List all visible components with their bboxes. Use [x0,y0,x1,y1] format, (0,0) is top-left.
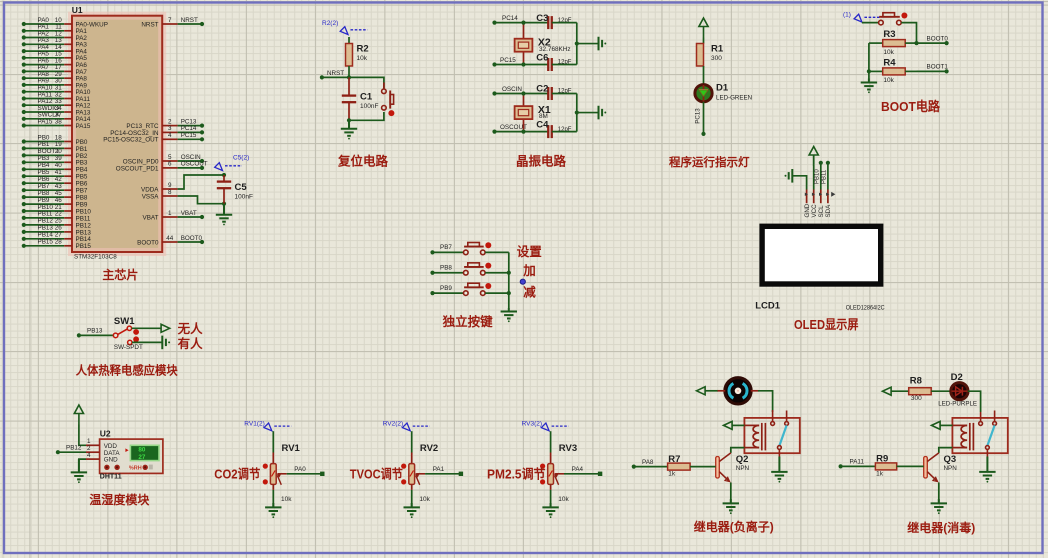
ground keys [501,308,517,319]
push button reset [383,83,385,89]
svg-text:PB12: PB12 [76,222,92,229]
wire boot button to BOOT0 node [901,23,916,43]
svg-text:BOOT0: BOOT0 [927,35,949,42]
junction crystal top [521,91,525,95]
svg-text:PB13: PB13 [87,328,103,335]
svg-text:PB14: PB14 [76,236,92,243]
U1 right pin 3 PC14-OSC32_IN [110,125,204,137]
power arrow OLED VCC [809,147,818,167]
relay coil [744,425,759,447]
U1 left pin 18 PB0 net PB0 [22,134,88,146]
wire power to VDD pin [79,425,86,446]
svg-text:PB5: PB5 [76,174,88,181]
svg-text:Q3: Q3 [944,454,957,465]
voltage probe R2(2) [322,20,368,35]
svg-text:CO2调节: CO2调节 [214,466,260,481]
svg-text:RV1: RV1 [282,443,301,454]
svg-text:32.768KHz: 32.768KHz [539,46,571,53]
U1 left pin 31 PA10 net PA10 [22,85,91,97]
U2 pin 2 DATA net PB12 [56,445,100,455]
crystal X2 32.768KHz [515,23,571,65]
svg-text:PB1: PB1 [76,146,88,153]
svg-text:LCD1: LCD1 [755,300,781,311]
svg-text:人体热释电感应模块: 人体热释电感应模块 [76,363,179,378]
svg-text:OLED显示屏: OLED显示屏 [794,317,859,332]
svg-text:BOOT1: BOOT1 [927,64,949,71]
wire power to R1 [703,38,705,44]
U1 left pin 25 PB12 net PB12 [22,218,92,230]
svg-text:38: 38 [55,118,63,125]
wire probe to RV3 top [550,431,552,452]
net PA1 wire [425,466,463,476]
wire probe to RV1 top [272,431,274,452]
svg-text:PA0: PA0 [294,466,306,473]
svg-text:1k: 1k [668,471,676,478]
relay core [762,423,766,451]
push button PB9 [464,283,486,295]
svg-text:VSSA: VSSA [142,193,160,200]
svg-text:PA8: PA8 [642,459,654,466]
U1 right pin 2 PC13_RTC [126,118,204,130]
svg-text:PC15: PC15 [500,57,516,64]
U1 left pin 34 PA13 net SWDIO [22,105,91,117]
U1 left pin 16 PA6 net PA6 [22,57,88,69]
svg-text:VDDA: VDDA [141,186,159,193]
wire PC15 line [495,64,549,66]
U1 right pin 8 VSSA [142,189,178,201]
svg-text:U2: U2 [100,428,111,438]
junction bus PB9 [507,291,511,295]
wire NRST node to button [349,77,384,89]
U1 left pin 12 PA2 net PA2 [22,30,88,42]
U1 left pin 27 PB14 net PB14 [22,232,92,244]
wire Q2 emitter to ground [730,483,732,504]
wire R3 left to R4 left [868,43,870,78]
ground reset circuit [341,120,357,136]
power arrow relay2 coil top [932,421,941,429]
svg-text:PB12: PB12 [66,445,82,452]
svg-text:RV1(2): RV1(2) [244,421,264,428]
wire GND pin to ground [793,176,807,190]
wire SCL [815,161,823,190]
resistor R3 10k [869,29,917,56]
switch SW1 SW-SPDT [113,316,143,351]
svg-text:OSCIN: OSCIN [502,86,522,93]
net BOOT1 wire [917,64,949,74]
U1 left pin 32 PA11 net PA11 [22,91,91,103]
svg-text:C6: C6 [536,53,548,64]
net BOOT0 wire [917,35,949,45]
svg-text:DHT11: DHT11 [100,474,122,481]
svg-text:100nF: 100nF [235,194,253,201]
svg-text:复位电路: 复位电路 [337,154,389,169]
svg-text:LED-GREEN: LED-GREEN [716,94,752,101]
svg-text:R4: R4 [883,58,896,69]
svg-text:PB6: PB6 [76,181,88,188]
svg-text:C3: C3 [536,13,548,24]
U1 right pin 7 NRST [141,17,204,29]
push button PB8 [464,263,486,275]
node PC13 end [701,132,705,136]
svg-text:SW-SPDT: SW-SPDT [114,344,143,351]
wire PC14 line [495,22,549,24]
wire R2 bottom to NRST node [348,66,350,77]
voltage probe RV3(2) [522,421,569,431]
U1 left pin 19 PB1 net PB1 [22,141,88,153]
svg-text:BOOT0: BOOT0 [181,235,203,242]
ground below C5 [216,204,232,222]
svg-text:PB7: PB7 [440,244,452,251]
LCD1 pin direction arrows [805,192,836,197]
svg-text:SDA: SDA [825,204,832,218]
relay common terminal [979,412,983,426]
capacitor C4 12pF [536,120,572,139]
svg-text:300: 300 [711,55,722,62]
svg-text:NRST: NRST [141,21,158,28]
key row net PB7 [430,244,463,254]
voltage probe RV2(2) [383,421,430,431]
svg-text:PC13: PC13 [695,108,702,124]
resistor R2 10k [346,37,369,66]
svg-text:PB15: PB15 [76,243,92,250]
relay NC terminal stub [993,411,997,426]
svg-text:27: 27 [55,232,63,239]
svg-text:NPN: NPN [736,465,750,472]
svg-text:PB11: PB11 [822,169,828,184]
resistor R8 300 [891,376,931,402]
junction bus PB8 [507,271,511,275]
svg-text:C5(2): C5(2) [233,155,249,162]
wire C4 to right bus [552,131,577,133]
wire coil bottom to Q2 collector [731,448,745,453]
svg-text:C2: C2 [536,84,548,95]
voltage probe C5(2) [215,155,250,171]
svg-text:10k: 10k [419,496,430,503]
U1 right pin 44 BOOT0 [137,235,204,247]
U1 left pin 41 PB5 net PB5 [22,169,88,181]
svg-text:OLED12864I2C: OLED12864I2C [846,305,886,311]
svg-text:R3: R3 [883,29,895,40]
svg-text:RV3: RV3 [559,443,577,454]
junction crystal bottom [521,130,525,134]
svg-text:PB12: PB12 [38,218,54,225]
resistor R9 1k net PA11 [839,454,924,478]
svg-text:PB1: PB1 [38,141,50,148]
U1 left pin 43 PB7 net PB7 [22,183,88,195]
capacitor C2 12pF [536,84,572,100]
U1 left pin 33 PA12 net PA12 [22,98,91,110]
svg-text:SW1: SW1 [114,316,135,327]
svg-text:44: 44 [166,235,174,242]
U1 right pin 1 VBAT [143,210,205,222]
svg-text:PA11: PA11 [850,459,865,466]
svg-text:10k: 10k [281,496,292,503]
wire button PB9 to bus [485,292,509,294]
svg-text:BOOT0: BOOT0 [137,239,159,246]
svg-text:U1: U1 [72,5,83,15]
wire bus to ground [577,112,599,114]
U1 left pin 29 PA8 net PA8 [22,71,88,83]
relay box [952,418,1007,453]
wire SW1 upper to power arrow [132,327,162,329]
capacitor C1 100nF [342,77,379,120]
power arrow R8 left [883,387,892,395]
svg-text:NRST: NRST [327,70,344,77]
U1 left pin 30 PA9 net PA9 [22,78,88,90]
wire bus to ground [577,43,599,45]
svg-text:VBAT: VBAT [143,214,159,221]
svg-text:主芯片: 主芯片 [102,267,138,282]
svg-text:1k: 1k [876,470,884,477]
push button PB7 [464,243,486,255]
wire probe to boot button [862,22,879,24]
svg-text:程序运行指示灯: 程序运行指示灯 [669,155,750,169]
svg-text:19: 19 [55,141,63,148]
right bus wire [576,23,578,65]
U1 left pin 46 PB9 net PB9 [22,197,88,209]
junction R4 left [867,69,871,73]
svg-text:300: 300 [911,395,922,402]
junction NRST node [347,75,351,79]
svg-text:10k: 10k [883,49,894,56]
wire button bottom to C1 bottom node [349,112,384,120]
U1 left pin 21 PB10 net PB10 [22,204,92,216]
U1 left pin 26 PB13 net PB13 [22,225,92,237]
potentiometer RV1 10k [263,443,301,503]
U1 left pin 38 PA15 net PA15 [22,118,91,130]
svg-text:PB5: PB5 [38,169,50,176]
svg-text:80: 80 [138,446,146,453]
svg-text:4: 4 [87,452,91,459]
svg-text:PB11: PB11 [38,211,53,218]
power arrow motor left [697,387,706,395]
U1 left pin 10 PA0-WKUP net PA0 [22,17,108,29]
LCD1 pin SCL [818,190,825,218]
svg-text:RV2: RV2 [420,443,438,454]
wire relay1 common entry [772,410,774,412]
net PA0 wire [287,466,325,476]
wire VCC pin to power [813,155,815,190]
ground OLED [789,169,793,183]
MCU U1 STM32F103C8 [72,5,163,260]
svg-text:独立按键: 独立按键 [442,314,494,329]
ground Q3 [931,499,947,510]
svg-text:NRST: NRST [181,17,198,24]
svg-text:42: 42 [55,176,63,183]
svg-text:加: 加 [522,263,536,278]
U1 right pin 6 OSCOUT_PD1 [116,161,208,173]
svg-text:C1: C1 [360,92,373,103]
svg-text:减: 减 [523,285,536,300]
wire probe to RV2 top [411,431,413,452]
wire R1 to D1 [703,66,705,85]
svg-text:RV3(2): RV3(2) [522,421,542,428]
svg-text:LED-PURPLE: LED-PURPLE [938,401,977,408]
U1 left pin 22 PB11 net PB11 [22,211,91,223]
svg-text:PB3: PB3 [76,160,88,167]
U1 left pin 20 PB2 net BOOT1 [22,148,88,160]
svg-text:SCL: SCL [818,205,825,218]
ground DHT11 [71,459,87,479]
voltage probe RV1(2) [244,421,291,431]
node C5 top [222,173,226,177]
wire OSCIN line [495,93,549,95]
svg-text:GND: GND [104,457,118,464]
resistor R7 1k net PA8 [632,454,716,478]
svg-text:(1): (1) [843,12,851,19]
svg-text:PB11: PB11 [76,215,91,222]
svg-text:Q2: Q2 [736,454,749,465]
U1 left pin 40 PB4 net PB4 [22,162,88,174]
resistor R1 300 [697,44,724,67]
svg-text:无人: 无人 [177,321,204,336]
U1 left pin 13 PA3 net PA3 [22,37,88,49]
wire D2 to relay2 common [968,391,981,412]
U1 left pin 28 PB15 net PB15 [22,239,92,251]
net PB13 wire [77,328,113,338]
ground crystal group [599,106,603,120]
voltage probe (1) [843,12,881,23]
svg-text:PB3: PB3 [38,155,50,162]
svg-text:1: 1 [168,210,172,217]
ground RV1 [265,503,281,514]
key row net PB9 [430,285,463,295]
svg-text:22: 22 [55,211,63,218]
svg-text:%RH: %RH [129,465,142,471]
ground crystal group [599,37,603,51]
svg-text:GND: GND [804,203,811,217]
svg-text:C4: C4 [536,120,549,131]
svg-text:9: 9 [168,182,172,189]
relay box [744,418,799,453]
LED D1 LED-GREEN [695,83,752,102]
svg-text:R1: R1 [711,44,724,55]
LCD1 OLED display body [755,224,885,312]
svg-text:PB15: PB15 [38,239,54,246]
wire RV1 bottom to ground [272,490,274,508]
svg-text:设置: 设置 [517,244,543,259]
wire power to motor [705,390,718,392]
svg-text:PM2.5调节: PM2.5调节 [487,466,546,481]
svg-text:RV2(2): RV2(2) [383,421,403,428]
wire relay2 coil bottom to Q3 [939,448,953,453]
push button BOOT [879,13,902,25]
svg-text:OSCOUT: OSCOUT [181,161,208,168]
svg-text:10k: 10k [883,77,894,84]
wire OSCOUT line [495,131,549,133]
right bus wire [576,94,578,132]
svg-text:OSCOUT_PD1: OSCOUT_PD1 [116,165,159,172]
svg-text:PB6: PB6 [38,176,50,183]
capacitor C3 12pF [536,13,572,29]
U1 left pin 17 PA7 net PA7 [22,64,88,76]
svg-text:PC15: PC15 [181,132,197,139]
U1 right pin 5 OSCIN_PD0 [123,154,204,166]
wire SDA [822,161,830,190]
resistor R4 10k [869,58,917,85]
relay NC terminal stub [785,411,789,426]
U1 right pin 9 VDDA [141,182,178,194]
svg-text:41: 41 [55,169,63,176]
svg-text:NPN: NPN [944,465,958,472]
svg-text:PA4: PA4 [572,466,584,473]
ground BOOT circuit [861,79,877,90]
relay core [970,423,974,451]
svg-text:温湿度模块: 温湿度模块 [89,492,150,507]
svg-text:R2(2): R2(2) [322,20,338,27]
wire button PB7 to bus [485,251,509,253]
relay switched terminal [778,446,782,457]
svg-text:有人: 有人 [178,336,204,351]
svg-text:R7: R7 [668,454,680,465]
junction BOOT0 [914,41,918,45]
svg-text:R2: R2 [357,44,369,55]
svg-text:28: 28 [55,239,63,246]
svg-text:PB9: PB9 [440,285,452,292]
U1 right pin 4 PC15-OSC32_OUT [103,132,204,144]
junction crystal bottom [521,62,525,66]
wire SW1 lower to ground [132,341,162,343]
LCD1 pin SDA [825,190,832,218]
svg-text:晶振电路: 晶振电路 [516,154,567,169]
keys bus wire [508,252,510,308]
svg-text:PB8: PB8 [38,190,50,197]
wire coil top [732,424,744,426]
node C5 bottom [222,202,226,206]
svg-text:继电器(消毒): 继电器(消毒) [907,520,975,535]
svg-text:8: 8 [168,189,172,196]
wire NRST node left [322,76,349,78]
relay lever [987,425,994,445]
key row net PB8 [430,265,463,275]
U1 left pin 11 PA1 net PA1 [22,24,88,36]
net PA4 wire [564,466,602,476]
ground RV2 [404,503,420,514]
LED D2 LED-PURPLE [938,372,977,408]
junction right bus [575,110,579,114]
svg-text:39: 39 [55,155,63,162]
svg-text:PB8: PB8 [440,265,452,272]
junction C1 bottom [347,118,351,122]
wire button PB8 to bus [485,272,509,274]
relay lever [779,425,786,445]
svg-text:VCC: VCC [811,204,818,218]
junction right bus [575,41,579,45]
relay coil [952,425,967,447]
wire C6 to right bus [552,64,577,66]
motor symbol [725,378,751,404]
U1 left pin 15 PA5 net PA5 [22,51,88,63]
svg-text:继电器(负离子): 继电器(负离子) [694,519,774,534]
svg-text:VBAT: VBAT [181,210,197,217]
wire VSSA to C5 bottom node [178,196,224,204]
ground RV3 [542,503,558,514]
ground SW1 [162,336,166,350]
svg-text:R8: R8 [910,376,922,387]
svg-text:45: 45 [55,190,63,197]
wire GND pin to ground [79,459,86,472]
svg-text:PA15: PA15 [38,118,53,125]
U1 left pin 42 PB6 net PB6 [22,176,88,188]
wire RV3 bottom to ground [550,490,552,508]
svg-text:25: 25 [55,218,63,225]
U2 pin 4 GND [86,452,100,459]
crystal X1 8M [515,94,551,132]
wire R8 to D2 [931,390,951,392]
svg-text:6: 6 [168,161,172,168]
svg-text:D1: D1 [716,83,729,94]
svg-text:PC15-OSC32_OUT: PC15-OSC32_OUT [103,137,158,144]
